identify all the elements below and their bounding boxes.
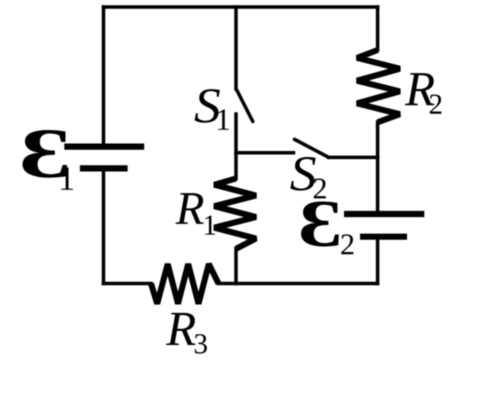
resistor R3 zigzag: [151, 264, 219, 304]
wire middle vertical stub below S1 to node: [234, 114, 238, 179]
wire middle vertical from top to switch S1: [234, 7, 238, 89]
wire right vertical between R2 and battery E2: [376, 122, 380, 212]
battery E1 long plate: [64, 144, 144, 150]
wire right vertical below battery E2 to bottom: [376, 239, 380, 284]
label EMF E2: [301, 201, 339, 246]
battery E2 long plate: [344, 211, 424, 217]
label S1: [195, 89, 220, 123]
label R1: [175, 193, 203, 224]
wire horizontal node to switch S2 left terminal: [236, 151, 294, 155]
wire from S2 pivot to right vertical: [329, 156, 378, 160]
wire right vertical top to R2: [376, 7, 380, 50]
switch S1 blade: [237, 90, 253, 122]
wire left vertical upper: [102, 7, 106, 145]
battery E2 short plate: [360, 234, 407, 240]
wire middle vertical below R1 to bottom: [234, 249, 238, 284]
label S2: [290, 157, 315, 191]
switch S2 blade: [295, 139, 329, 157]
resistor R1 zigzag: [214, 179, 256, 249]
label R2: [405, 73, 434, 105]
wire left vertical lower: [102, 168, 106, 283]
battery E1 short plate: [80, 165, 128, 171]
wire top horizontal: [104, 5, 378, 9]
wire bottom right segment: [219, 282, 378, 286]
label R3: [166, 313, 195, 345]
resistor R2 zigzag: [357, 50, 400, 122]
label EMF E1: [23, 130, 68, 178]
wire bottom left segment: [104, 282, 152, 286]
